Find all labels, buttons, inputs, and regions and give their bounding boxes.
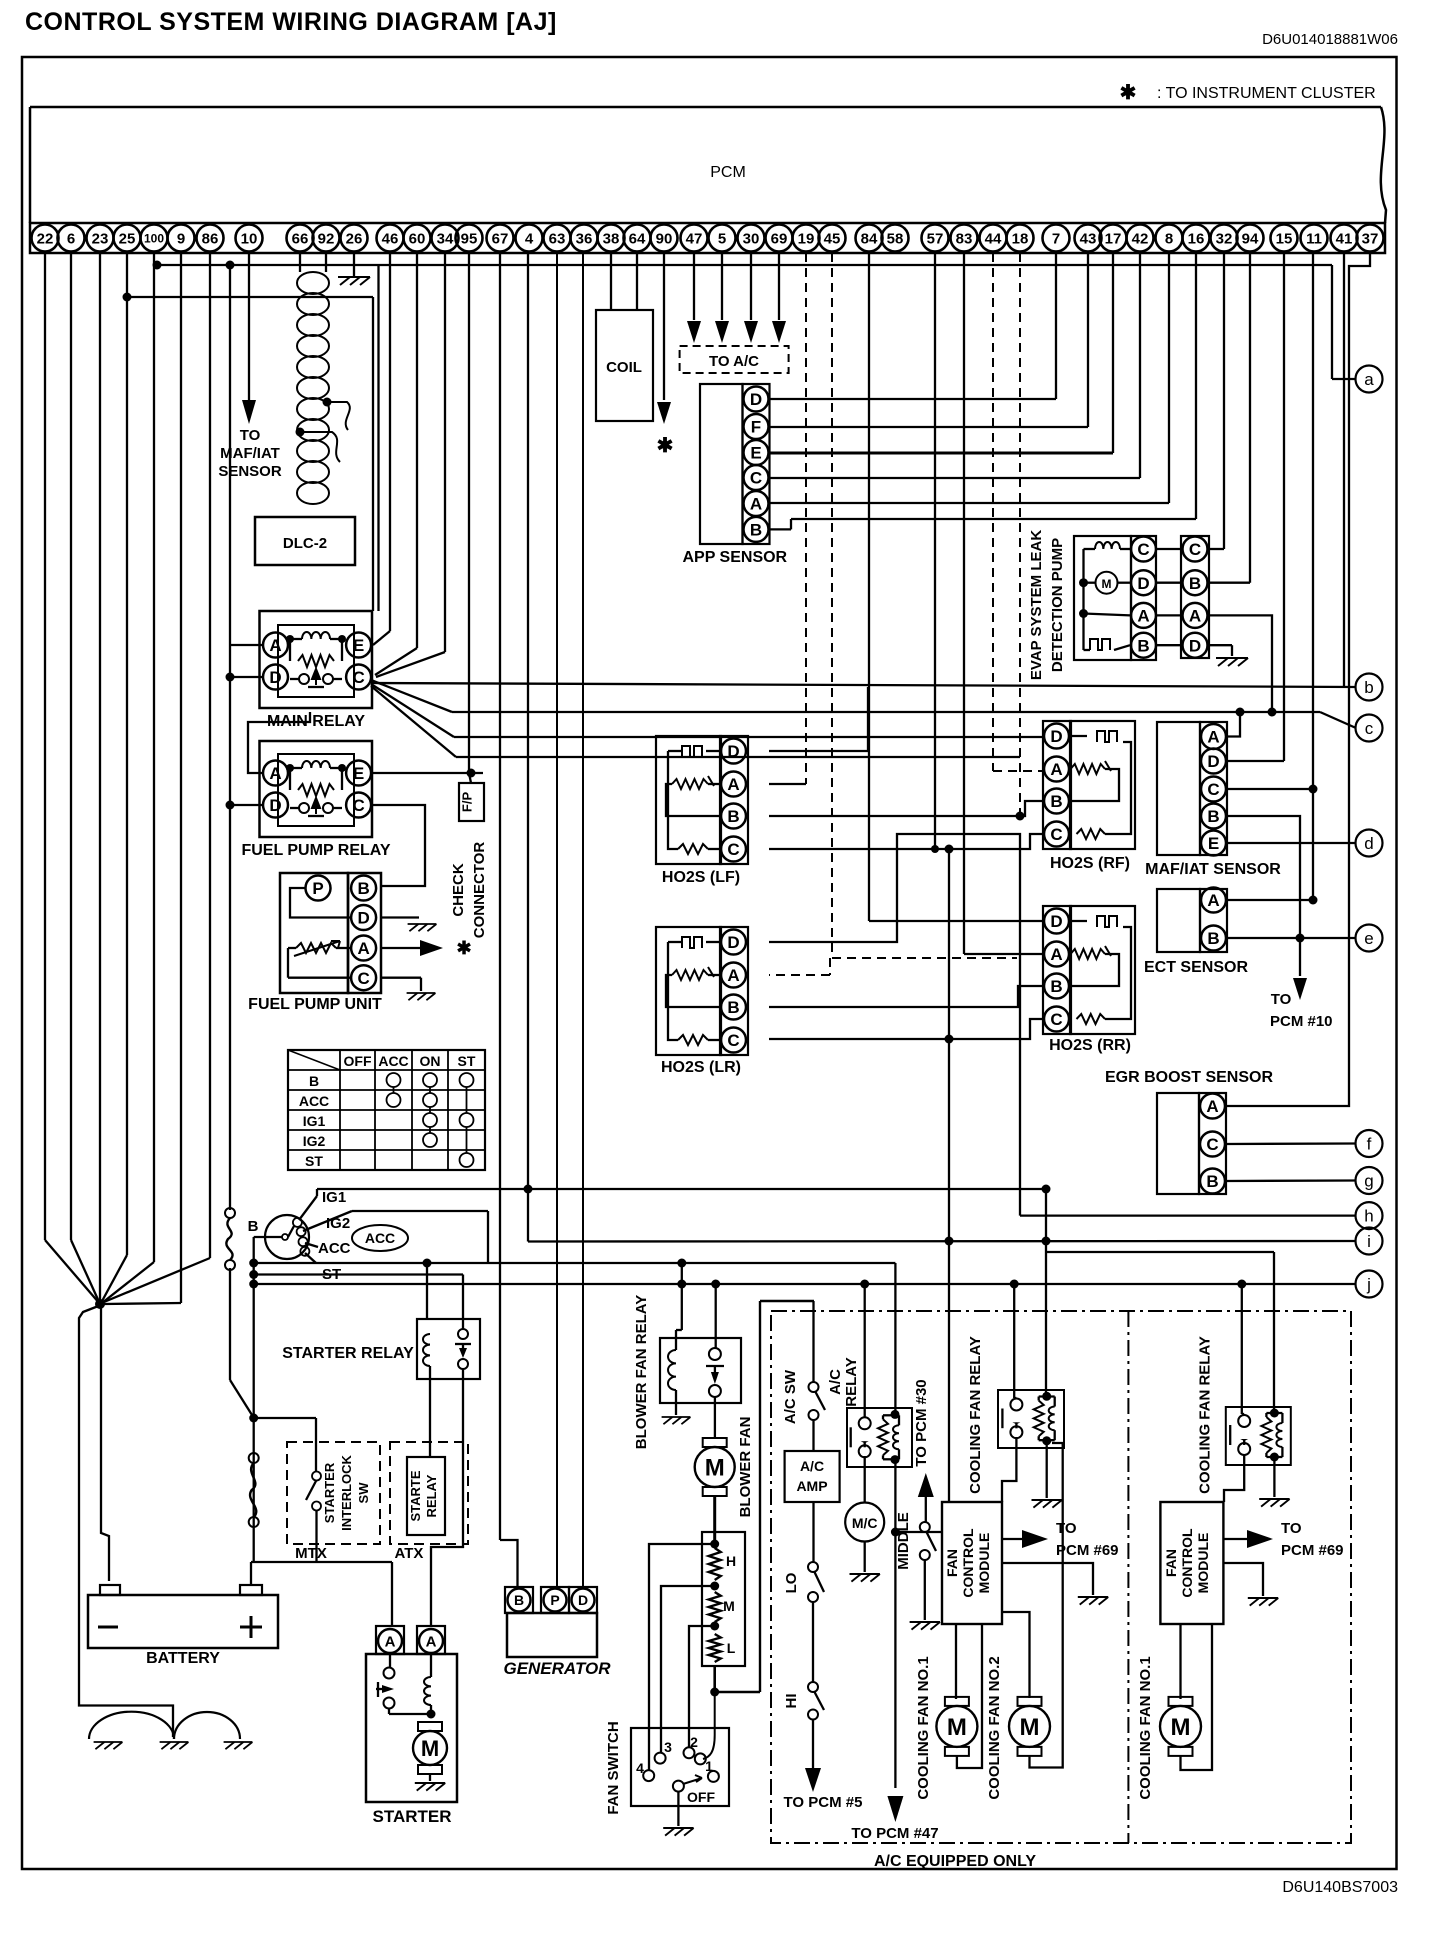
svg-text:RELAY: RELAY xyxy=(843,1357,860,1406)
PCM pin 100 xyxy=(141,225,168,252)
svg-text:P: P xyxy=(312,879,323,898)
svg-text:9: 9 xyxy=(177,230,185,247)
wire A/C relay to M/C clutch xyxy=(864,1456,866,1503)
svg-text:ON: ON xyxy=(420,1053,441,1069)
svg-text:TO: TO xyxy=(240,427,261,444)
svg-text:M: M xyxy=(1102,577,1112,591)
PCM pin 67 xyxy=(487,225,514,252)
junction node j bus x=715.7 xyxy=(711,1280,720,1289)
svg-text:F: F xyxy=(751,418,761,437)
svg-text:ATX: ATX xyxy=(395,1545,424,1562)
EGR boost sensor xyxy=(1157,1093,1226,1194)
wire cooling fan no1 return xyxy=(957,1624,982,1768)
PCM pin 30 xyxy=(738,225,765,252)
LO switch xyxy=(808,1562,824,1602)
arrow module TO PCM 69 left xyxy=(1002,1530,1048,1548)
PCM pin 25 xyxy=(114,225,141,252)
svg-text:58: 58 xyxy=(887,230,904,247)
PCM pin 43 xyxy=(1075,225,1102,252)
wire B to ignition rail xyxy=(254,1236,282,1238)
svg-text:OFF: OFF xyxy=(687,1789,715,1805)
svg-text:A: A xyxy=(385,1633,396,1650)
svg-text:ACC: ACC xyxy=(318,1240,351,1257)
starter interlock switch MTX xyxy=(287,1442,380,1544)
ground module left xyxy=(1078,1597,1108,1605)
wire blower relay to blower fan motor xyxy=(714,1397,716,1438)
PCM pin 38 xyxy=(598,225,625,252)
PCM pin 10 xyxy=(236,225,263,252)
label BLOWER FAN RELAY xyxy=(633,1295,650,1449)
svg-text:CONNECTOR: CONNECTOR xyxy=(471,842,488,939)
svg-text:C: C xyxy=(357,969,369,988)
doc id D6U140BS7003 xyxy=(1282,1879,1398,1896)
PCM pin 47 xyxy=(681,225,708,252)
wire resistor output junction xyxy=(710,1666,719,1697)
wire fuel pump relay E to check connector xyxy=(371,769,483,778)
node e xyxy=(1356,925,1383,952)
svg-text:j: j xyxy=(1366,1275,1371,1294)
svg-text:1: 1 xyxy=(705,1758,713,1774)
label HO2S (LF) xyxy=(662,869,740,886)
svg-text:94: 94 xyxy=(1242,230,1259,247)
svg-text:: TO INSTRUMENT CLUSTER: : TO INSTRUMENT CLUSTER xyxy=(1157,85,1376,102)
svg-text:M: M xyxy=(705,1455,725,1482)
fusible link battery rail xyxy=(249,1453,259,1527)
wire pin 11 riser xyxy=(1312,253,1314,900)
ground battery right xyxy=(224,1742,253,1749)
wire pin 94 to EVAP B xyxy=(1209,253,1250,583)
shield drain hook xyxy=(296,398,350,463)
wire pin 41 riser xyxy=(1343,253,1345,686)
wire HO2S LF D riser xyxy=(769,687,868,751)
svg-text:f: f xyxy=(1367,1135,1372,1154)
battery xyxy=(88,1585,278,1648)
cooling fan no1 motor xyxy=(936,1697,977,1756)
wire module to ground left xyxy=(1002,1563,1093,1595)
wire right relay to module xyxy=(1224,1454,1244,1502)
wire cooling fan no2 return riser xyxy=(1030,1443,1063,1768)
svg-text:MODULE: MODULE xyxy=(1195,1533,1211,1594)
label APP SENSOR xyxy=(682,549,787,566)
wire pin 86 to junction node xyxy=(104,253,210,1302)
wire node j to blower relay contact xyxy=(715,1284,717,1348)
svg-text:CONTROL: CONTROL xyxy=(1179,1528,1195,1598)
wire EGR C to node f xyxy=(1226,1142,1355,1145)
ground battery mid xyxy=(160,1742,189,1749)
ground arc loops xyxy=(89,1712,240,1739)
svg-text:ACC: ACC xyxy=(299,1093,329,1109)
PCM pin 32 xyxy=(1211,225,1238,252)
junction node j bus x=864.7 xyxy=(860,1280,869,1289)
svg-text:84: 84 xyxy=(861,230,878,247)
svg-text:43: 43 xyxy=(1080,230,1097,247)
svg-text:83: 83 xyxy=(956,230,973,247)
ACC oval xyxy=(352,1225,408,1251)
wire pin 4 to IG1 bus xyxy=(527,253,529,1188)
svg-text:COOLING FAN RELAY: COOLING FAN RELAY xyxy=(1197,1336,1214,1494)
svg-text:38: 38 xyxy=(603,230,620,247)
wire pin 57 down xyxy=(934,253,936,849)
ground starter xyxy=(415,1783,445,1791)
svg-text:B: B xyxy=(1050,977,1062,996)
wire pin 32 to EVAP C xyxy=(1209,253,1224,549)
PCM pin 6 xyxy=(58,225,85,252)
HI switch xyxy=(808,1682,824,1720)
svg-text:TO PCM #30: TO PCM #30 xyxy=(913,1379,930,1466)
svg-text:B: B xyxy=(1137,636,1149,655)
svg-text:44: 44 xyxy=(985,230,1002,247)
svg-text:C: C xyxy=(1137,540,1149,559)
svg-text:C: C xyxy=(352,796,364,815)
svg-text:64: 64 xyxy=(629,230,646,247)
svg-text:F/P: F/P xyxy=(460,792,475,813)
svg-text:HO2S (RF): HO2S (RF) xyxy=(1050,855,1130,872)
svg-text:C: C xyxy=(1050,1010,1062,1029)
svg-text:A: A xyxy=(727,775,739,794)
svg-text:A: A xyxy=(269,636,281,655)
PCM pin 5 xyxy=(709,225,736,252)
wire EVAP A to bus c xyxy=(1209,615,1277,716)
HO2S (LR) sensor xyxy=(656,927,748,1055)
svg-text:10: 10 xyxy=(241,230,258,247)
label STARTER RELAY xyxy=(282,1345,414,1362)
PCM pin 46 xyxy=(377,225,404,252)
junction dot battery feed node xyxy=(95,1299,105,1309)
wire sensor ground riser to node i xyxy=(945,849,954,1246)
svg-text:46: 46 xyxy=(382,230,399,247)
wire pin 92 stub xyxy=(325,253,327,272)
wire pin 15 to MAF D xyxy=(1227,253,1284,761)
junction node j bus x=1014.2 xyxy=(1010,1280,1019,1289)
wire pin 8 to APP A xyxy=(769,253,1169,503)
svg-text:COOLING FAN RELAY: COOLING FAN RELAY xyxy=(967,1336,984,1494)
svg-text:✱: ✱ xyxy=(1120,82,1137,104)
svg-text:E: E xyxy=(353,636,364,655)
svg-text:41: 41 xyxy=(1336,230,1353,247)
PCM pin 90 xyxy=(651,225,678,252)
wire pin 7 to APP D xyxy=(769,253,1056,399)
label COOLING FAN NO.1 left xyxy=(915,1656,932,1799)
wire pin to A/C x=779 xyxy=(772,253,786,343)
svg-text:69: 69 xyxy=(771,230,788,247)
node b xyxy=(1356,674,1383,701)
ground cooling fan relay left xyxy=(1032,1500,1062,1508)
cooling fan no1 right motor xyxy=(1160,1697,1201,1756)
PCM pin 9 xyxy=(168,225,195,252)
label A/C EQUIPPED ONLY xyxy=(874,1853,1036,1870)
svg-text:45: 45 xyxy=(824,230,841,247)
svg-text:MODULE: MODULE xyxy=(976,1533,992,1594)
wire ECT A to pin 11 riser xyxy=(1227,896,1318,905)
label MAF/IAT SENSOR xyxy=(1145,861,1281,878)
wire ST and label xyxy=(305,1253,341,1283)
svg-text:34: 34 xyxy=(437,230,454,247)
wire HO2S LR C to HO2S RR C xyxy=(769,1019,1043,1044)
wire right module to ground xyxy=(1223,1563,1263,1596)
svg-text:4: 4 xyxy=(636,1760,644,1776)
svg-text:✱: ✱ xyxy=(657,435,674,457)
svg-text:L: L xyxy=(727,1640,736,1656)
wire cooling fan relay to fan control module xyxy=(1002,1437,1016,1502)
svg-text:7: 7 xyxy=(1052,230,1060,247)
A/C equipped only dash-dot border xyxy=(771,1311,1351,1843)
label EGR BOOST SENSOR xyxy=(1105,1069,1273,1086)
wire branch bus to right relay coil xyxy=(1046,1252,1274,1413)
svg-text:ECT SENSOR: ECT SENSOR xyxy=(1144,959,1248,976)
wire resistor M tap to fan switch 3 xyxy=(661,1586,715,1753)
PCM pin 64 xyxy=(624,225,651,252)
wire pin to A/C x=751 xyxy=(744,253,758,343)
svg-text:A: A xyxy=(1137,607,1149,626)
svg-text:C: C xyxy=(727,1031,739,1050)
wire resistor H tap to fan switch 4 xyxy=(649,1544,715,1770)
wire junction node to chassis ground arcs xyxy=(79,1305,173,1737)
node f xyxy=(1356,1130,1383,1157)
ground battery left xyxy=(94,1742,123,1749)
svg-text:HO2S (LR): HO2S (LR) xyxy=(661,1059,741,1076)
wire IG1 riser to cooling fan relay coil xyxy=(1045,1189,1047,1396)
svg-text:FUEL PUMP RELAY: FUEL PUMP RELAY xyxy=(241,842,390,859)
wire pin 6 to junction node xyxy=(71,253,100,1304)
magnetic clutch M/C xyxy=(845,1503,884,1542)
wire fan switch to ground xyxy=(677,1792,679,1826)
HO2S (LF) sensor xyxy=(656,736,748,864)
svg-text:MIDDLE: MIDDLE xyxy=(895,1512,912,1570)
PCM pin 57 xyxy=(922,225,949,252)
wire resistor L tap to fan switch 2 xyxy=(689,1626,715,1748)
svg-text:PCM: PCM xyxy=(710,164,746,181)
wire pin 67 to generator B xyxy=(500,253,518,1587)
label HI xyxy=(783,1694,800,1709)
svg-text:MTX: MTX xyxy=(295,1545,327,1562)
label BATTERY xyxy=(146,1650,220,1667)
ignition switch table xyxy=(288,1050,485,1170)
wire pin 34 to main relay C xyxy=(376,253,445,677)
node h xyxy=(1356,1202,1383,1229)
svg-text:32: 32 xyxy=(1216,230,1233,247)
svg-text:16: 16 xyxy=(1188,230,1205,247)
wire pin 60 to main relay C xyxy=(375,253,417,675)
svg-text:90: 90 xyxy=(656,230,673,247)
PCM pin 19 xyxy=(793,225,820,252)
svg-text:E: E xyxy=(750,444,761,463)
wire A/C SW to amp xyxy=(812,1420,814,1451)
label COOLING FAN RELAY right xyxy=(1197,1336,1214,1494)
PCM pin 16 xyxy=(1183,225,1210,252)
HO2S (RR) sensor xyxy=(1043,906,1135,1034)
svg-text:c: c xyxy=(1365,719,1374,738)
svg-text:a: a xyxy=(1364,370,1374,389)
PCM pin 94 xyxy=(1237,225,1264,252)
svg-text:C: C xyxy=(1189,540,1201,559)
svg-text:92: 92 xyxy=(318,230,335,247)
wire cooling fan relay coil to ground xyxy=(1046,1441,1048,1498)
svg-text:C: C xyxy=(727,840,739,859)
svg-text:COOLING FAN NO.1: COOLING FAN NO.1 xyxy=(915,1656,932,1799)
wire MAF B to PCM 10 xyxy=(1227,816,1300,938)
ground fuel pump unit D xyxy=(408,924,437,931)
wire right relay coil to ground xyxy=(1273,1457,1275,1497)
svg-text:D: D xyxy=(1050,727,1062,746)
label STARTER xyxy=(372,1807,451,1826)
svg-text:D6U014018881W06: D6U014018881W06 xyxy=(1262,31,1398,48)
label BLOWER FAN xyxy=(737,1417,754,1518)
wire pin 43 to APP F xyxy=(769,253,1088,427)
wire right cooling fan return xyxy=(1181,1624,1213,1770)
svg-text:47: 47 xyxy=(686,230,703,247)
svg-text:CONTROL: CONTROL xyxy=(960,1528,976,1598)
svg-text:CONTROL SYSTEM WIRING DIAGRAM: CONTROL SYSTEM WIRING DIAGRAM [AJ] xyxy=(25,8,557,36)
wire starter relay coil to ATX relay xyxy=(429,1366,431,1457)
wire fuel pump unit C to ground xyxy=(381,978,421,991)
ground right relay xyxy=(1259,1499,1289,1507)
svg-text:STARTER RELAY: STARTER RELAY xyxy=(282,1345,414,1362)
svg-text:A/C: A/C xyxy=(827,1369,844,1395)
wire HO2S LR B to HO2S RR B xyxy=(769,986,1043,1007)
svg-text:D: D xyxy=(727,742,739,761)
dashed wire pin 44 to HO2S RF A xyxy=(993,253,1043,771)
label TO PCM 69 left xyxy=(1056,1520,1119,1559)
svg-text:B: B xyxy=(514,1592,524,1608)
svg-text:d: d xyxy=(1364,834,1373,853)
svg-text:FAN: FAN xyxy=(1163,1549,1179,1577)
PCM pin 83 xyxy=(951,225,978,252)
check connector asterisk xyxy=(456,938,471,958)
svg-text:D: D xyxy=(1137,574,1149,593)
svg-text:EVAP SYSTEM LEAK: EVAP SYSTEM LEAK xyxy=(1028,530,1045,680)
wire interlock feed xyxy=(254,1418,317,1562)
dashed wire pin 45 to HO2S LR A xyxy=(769,253,1017,975)
svg-text:DLC-2: DLC-2 xyxy=(283,535,327,552)
dashed wire pin 19 xyxy=(805,253,807,784)
PCM pin 45 xyxy=(819,225,846,252)
cooling fan relay left xyxy=(998,1390,1064,1448)
svg-text:19: 19 xyxy=(798,230,815,247)
node j xyxy=(1356,1271,1383,1298)
svg-text:GENERATOR: GENERATOR xyxy=(503,1659,611,1678)
svg-text:A/C: A/C xyxy=(800,1458,824,1474)
label FUEL PUMP RELAY xyxy=(241,842,390,859)
wire pin 46 to main relay E xyxy=(373,253,390,645)
wire module to accessory riser xyxy=(895,1531,942,1533)
wire pin 36 to generator D xyxy=(582,253,584,1587)
svg-text:8: 8 xyxy=(1165,230,1173,247)
svg-text:A: A xyxy=(1050,760,1062,779)
svg-text:IG1: IG1 xyxy=(303,1113,326,1129)
wire ACC and label xyxy=(305,1240,351,1257)
svg-text:30: 30 xyxy=(743,230,760,247)
svg-text:A: A xyxy=(1207,728,1219,747)
label GENERATOR xyxy=(503,1659,611,1678)
svg-text:RELAY: RELAY xyxy=(424,1474,439,1517)
svg-text:E: E xyxy=(353,764,364,783)
ground EVAP xyxy=(1216,658,1248,666)
wire fuel pump relay D to left rail xyxy=(226,801,264,810)
PCM box xyxy=(30,107,1386,223)
label COOLING FAN NO.1 right xyxy=(1137,1656,1154,1799)
svg-text:IG2: IG2 xyxy=(326,1215,350,1232)
asterisk instrument cluster xyxy=(657,435,674,457)
wire ECT B to node e xyxy=(1227,934,1355,943)
wire fuel pump relay A feed xyxy=(248,712,310,773)
ground M/C xyxy=(850,1574,880,1582)
doc number D6U014018881W06 xyxy=(1262,31,1398,48)
svg-text:STARTER: STARTER xyxy=(322,1462,337,1523)
starter relay xyxy=(417,1319,480,1379)
svg-text:ACC: ACC xyxy=(365,1230,395,1246)
wire module to cooling fan no2 xyxy=(1002,1612,1030,1698)
wire pin 17 to APP E xyxy=(769,253,1113,453)
svg-text:B: B xyxy=(248,1218,259,1235)
wire HI to PCM 5 arrow xyxy=(805,1720,821,1793)
ground fan switch xyxy=(663,1828,693,1836)
svg-text:PCM #10: PCM #10 xyxy=(1270,1013,1333,1030)
label A/C SW xyxy=(782,1369,799,1424)
svg-text:D: D xyxy=(269,668,281,687)
svg-text:15: 15 xyxy=(1276,230,1293,247)
ground right module xyxy=(1248,1598,1278,1606)
svg-text:TO A/C: TO A/C xyxy=(709,353,759,370)
arrow TO PCM 30 xyxy=(918,1473,934,1522)
svg-text:OFF: OFF xyxy=(344,1053,372,1069)
wire junction branch to HI riser xyxy=(715,1301,814,1692)
arrow module TO PCM 69 right xyxy=(1223,1530,1273,1548)
svg-text:SENSOR: SENSOR xyxy=(218,463,282,480)
APP sensor xyxy=(700,384,770,544)
label FAN SWITCH xyxy=(605,1721,622,1814)
PCM pin 42 xyxy=(1127,225,1154,252)
label HO2S (RF) xyxy=(1050,855,1130,872)
label HO2S (RR) xyxy=(1049,1037,1131,1054)
PCM pin 34 xyxy=(432,225,459,252)
svg-text:FAN: FAN xyxy=(944,1549,960,1577)
node d xyxy=(1356,830,1383,857)
PCM pin 23 xyxy=(87,225,114,252)
svg-text:M/C: M/C xyxy=(852,1515,878,1531)
wire main relay C to bus c xyxy=(371,680,1356,728)
wire node h bus xyxy=(1020,1214,1355,1216)
svg-text:b: b xyxy=(1364,678,1373,697)
svg-text:B: B xyxy=(750,521,762,540)
label LO xyxy=(783,1572,800,1593)
svg-text:4: 4 xyxy=(525,230,534,247)
wire node i bus xyxy=(528,1188,1355,1246)
svg-text:A: A xyxy=(357,939,369,958)
wire pin 26 to ground xyxy=(353,253,355,277)
MIDDLE pressure switch xyxy=(920,1522,936,1560)
svg-text:A: A xyxy=(1206,1097,1218,1116)
ATX starter relay box xyxy=(390,1442,468,1544)
svg-text:23: 23 xyxy=(92,230,109,247)
svg-text:D: D xyxy=(1207,752,1219,771)
svg-text:TO PCM #47: TO PCM #47 xyxy=(851,1825,938,1842)
wire node j to right relay contact xyxy=(1242,1284,1244,1414)
node a xyxy=(1356,366,1383,393)
wire HO2S LR D to node h riser xyxy=(769,834,1020,1216)
svg-text:ACC: ACC xyxy=(378,1053,408,1069)
PCM pin 15 xyxy=(1271,225,1298,252)
svg-text:63: 63 xyxy=(549,230,566,247)
svg-text:A: A xyxy=(1189,607,1201,626)
label MTX xyxy=(295,1545,327,1562)
svg-text:PCM #69: PCM #69 xyxy=(1056,1542,1119,1559)
svg-text:IG2: IG2 xyxy=(303,1133,326,1149)
TO A/C box xyxy=(680,346,789,373)
label ECT SENSOR xyxy=(1144,959,1248,976)
label TO PCM 30 xyxy=(913,1379,930,1466)
svg-text:AMP: AMP xyxy=(796,1478,827,1494)
PCM pin 58 xyxy=(882,225,909,252)
